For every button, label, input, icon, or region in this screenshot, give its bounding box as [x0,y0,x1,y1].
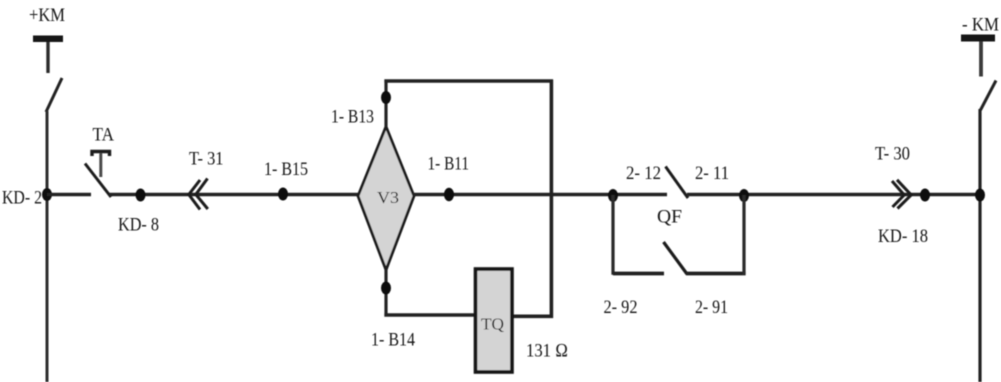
svg-text:1- B15: 1- B15 [264,159,308,180]
svg-text:KD- 8: KD- 8 [118,215,159,236]
svg-text:T- 30: T- 30 [875,144,910,165]
wire TQ right to loop [512,314,553,318]
wire loop right vertical [550,80,554,319]
wire diamond bottom stub [384,269,387,317]
node KD-18 junction dot [920,189,930,202]
battery terminal -KM bar [961,35,995,42]
switch blade +KM [46,78,62,112]
node 1-B15 junction dot [278,188,288,201]
arrow T-31 double chevron [189,180,200,210]
svg-text:V3: V3 [377,188,399,207]
node 1-B13 junction dot [381,91,391,104]
svg-text:T- 31: T- 31 [189,149,224,170]
node KD-8 junction dot [136,189,146,202]
wire diamond right to QF [413,193,667,197]
svg-text:2- 92: 2- 92 [604,297,638,318]
node QF left junction dot [608,189,618,202]
node KD-2 junction dot [42,188,52,201]
svg-text:TA: TA [93,125,115,146]
node QF right junction dot [739,189,749,202]
wire QF left drop [611,195,614,275]
contact TA actuator stem [99,153,102,177]
contact TA blade [85,164,111,198]
svg-text:2- 12: 2- 12 [626,163,661,184]
svg-text:1- B14: 1- B14 [371,330,415,351]
node 1-B11 junction dot [444,188,454,202]
svg-text:2- 91: 2- 91 [695,297,728,318]
battery terminal -KM stem [979,42,983,77]
svg-text:KD- 2: KD- 2 [2,188,42,209]
wire 1-B14 to TQ [384,313,477,316]
switch blade -KM [981,81,997,111]
svg-text:1- B11: 1- B11 [428,154,470,175]
wire QF bottom right [686,272,746,276]
svg-text:2- 11: 2- 11 [695,163,729,184]
svg-text:QF: QF [657,207,682,228]
wire KD-2 to TA contact [47,193,91,197]
battery terminal +KM stem [46,42,49,73]
svg-text:1- B13: 1- B13 [331,107,374,128]
battery terminal +KM bar [33,36,63,43]
arrow T-30 double chevron [897,180,911,209]
wire right vertical bus [978,109,981,382]
wire diamond top stub [384,80,387,128]
wire left vertical bus [46,111,49,382]
svg-text:- KM: - KM [962,15,999,36]
node 1-B14 junction dot [381,282,391,295]
svg-text:TQ: TQ [481,315,504,334]
breaker QF bottom blade [664,242,688,274]
coil TQ box [476,269,513,372]
contact TA actuator cap [92,152,110,157]
svg-text:+KM: +KM [29,5,65,26]
wire TA to diamond left [109,193,359,197]
wire QF bottom left [613,272,664,276]
node -KM bus junction dot [975,189,985,202]
wire QF top right to -KM bus [687,193,980,197]
wire top loop horizontal [384,79,553,83]
wire QF right rise [742,195,745,275]
breaker QF top blade [666,167,689,199]
svg-text:KD- 18: KD- 18 [878,226,928,247]
diode V3 diamond [358,127,414,271]
svg-text:131 Ω: 131 Ω [526,341,568,362]
